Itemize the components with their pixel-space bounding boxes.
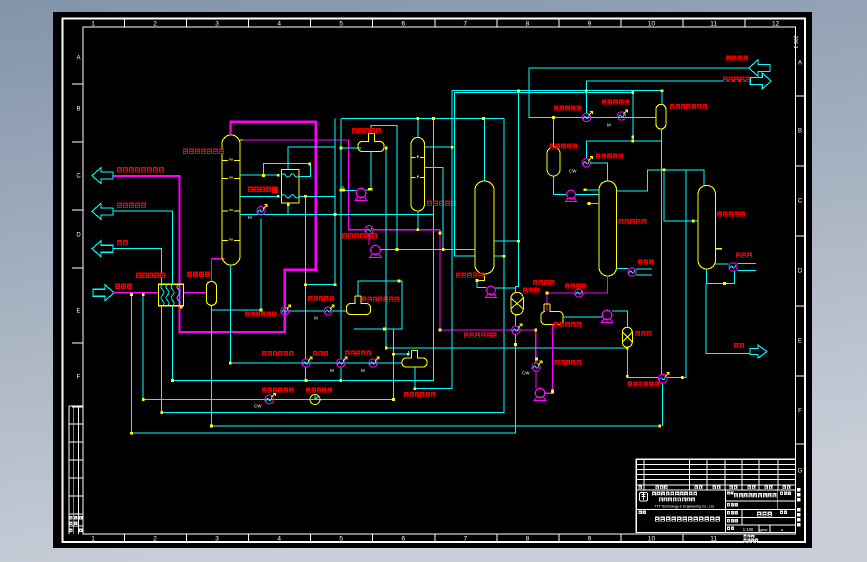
valve VV10 on T1 side-draw line <box>257 207 265 215</box>
wire T1 to E1 lower tube line <box>240 195 278 197</box>
instrument circle YC1 blowdown cooler <box>310 395 320 405</box>
wire T2 top riser <box>417 118 419 137</box>
svg-text:2: 2 <box>153 21 157 28</box>
svg-text:CW: CW <box>254 404 262 409</box>
label H2S浓缩塔 <box>456 273 483 278</box>
output arrow A2 CO2 gas <box>92 203 113 219</box>
revision strip table bottom-left margin <box>69 406 83 534</box>
svg-text:D: D <box>76 233 81 239</box>
svg-text:10: 10 <box>648 536 656 543</box>
wire V1 bottom drain down to valve VV3 and long drop to valve VV8 <box>586 129 661 374</box>
svg-text:A: A <box>798 61 802 67</box>
valve VV5 blowdown cooler with CW <box>265 395 274 404</box>
pump P1 <box>356 188 366 198</box>
ruler ticks top and bottom <box>125 19 746 543</box>
parts list table of title block <box>636 459 795 532</box>
tiny red mark left of E1 <box>272 187 278 193</box>
label 2#泵 at r1 <box>313 351 328 356</box>
wire VV13 to pump P6 (magenta) <box>535 371 537 388</box>
wire T3 overhead to column T4 with side branch <box>617 170 705 221</box>
pump P4 <box>567 190 576 199</box>
round exchanger RE1 reboiler <box>365 226 373 234</box>
vessel V1 H2S gas-liquid separator <box>656 104 666 129</box>
wire E1 bottom coil outlet down to valve VV4 and rail r2 <box>299 196 335 380</box>
label 低压蒸汽 <box>726 56 748 61</box>
main title block bottom-right <box>636 490 795 532</box>
label 1#泵DN150 <box>262 351 293 356</box>
svg-text:M: M <box>248 215 252 220</box>
inner drawing frame <box>83 27 796 534</box>
output arrow A6 H2S recovery gas <box>750 73 771 89</box>
round exchanger RE6 on T3 bottoms <box>575 289 583 297</box>
svg-text:M: M <box>361 368 365 373</box>
label H2S冷凝器 at VV3 <box>596 154 623 159</box>
wire T2 bottoms drop to RE1 outlet line <box>417 211 419 230</box>
margin text under title block <box>744 535 759 543</box>
label H2S气液分离器 <box>670 104 707 109</box>
svg-text:11: 11 <box>710 536 717 543</box>
wire raw gas feed (magenta) through preheater E2 into waste-heat boiler V3 <box>114 259 225 293</box>
wire T1 overhead side stub (yellow) <box>240 139 243 141</box>
label 3#泵DN100 <box>345 351 371 356</box>
label 再沸器 at RE6 <box>565 284 586 289</box>
heat exchanger E2 raw gas preheater <box>159 284 184 306</box>
label 净化气往甲醇合成 <box>117 167 164 172</box>
svg-text:7: 7 <box>464 536 468 543</box>
wire E1 right side loop <box>264 164 311 177</box>
svg-text:8: 8 <box>526 21 530 28</box>
svg-text:1: 1 <box>91 21 95 28</box>
wire drum D1 to pump P1 loop <box>341 151 371 191</box>
wire E1 shell inlet from top header <box>288 118 335 284</box>
svg-text:3: 3 <box>215 536 219 543</box>
valve VV2 H2S precooler <box>617 112 625 120</box>
ruler column numbers 1-12 top and bottom <box>91 21 779 543</box>
svg-text:7: 7 <box>464 21 468 28</box>
svg-text:8: 8 <box>526 536 530 543</box>
wire T1 overhead vapour (magenta) to exchanger RE1 and on to valve VV7 and pump P6 <box>243 140 553 393</box>
wire D2 riser loop <box>354 281 402 329</box>
valve VV1 H2S condenser <box>582 113 590 121</box>
label CO2气体 <box>117 203 146 208</box>
wire T4 bottoms to reboiler return and waste water header <box>706 269 751 353</box>
svg-text:CW: CW <box>522 371 530 376</box>
drum D3 waste water separator no.2 <box>402 350 427 367</box>
wire magenta riser from P6 to tank D4 <box>552 325 554 392</box>
svg-text:12: 12 <box>772 21 780 28</box>
label 排污冷却器 <box>306 388 332 393</box>
valve VV11 regenerator gas heater on magenta riser <box>281 307 289 315</box>
svg-text:5: 5 <box>339 536 343 543</box>
svg-text:F: F <box>77 375 81 381</box>
wire T3 left nozzle stub b <box>589 203 599 205</box>
svg-text:D: D <box>798 269 803 275</box>
svg-text:10: 10 <box>648 21 656 28</box>
wire T5 right stub to header riser <box>494 255 504 257</box>
label 闪蒸分离器 <box>550 144 577 149</box>
svg-text:G: G <box>798 469 803 475</box>
tank D4 methanol intermediate tank <box>541 304 563 325</box>
wire P5 discharge to filter V6 <box>612 311 628 327</box>
wire T3 left nozzle stub a <box>585 189 599 191</box>
outer border frame <box>63 19 806 543</box>
label 甲醇精馏塔 below T3 <box>619 219 647 224</box>
wire T3 bottoms (magenta) through reboiler circuit to tank D4 <box>547 276 608 312</box>
wire H2S recovery gas from valve line to arrow A6 <box>586 81 750 113</box>
wire RE1 to pump P2 (magenta) <box>368 234 370 245</box>
svg-text:1: 1 <box>91 536 95 543</box>
label 预热器E102 <box>136 273 165 278</box>
label 再沸器DN100 <box>342 233 377 238</box>
drum D2 waste water separator no.1 <box>347 296 371 315</box>
svg-text:6: 6 <box>401 21 405 28</box>
label 2#泵DN150 <box>464 333 497 338</box>
label H2S冷凝器 <box>554 106 581 111</box>
wire rail r3 from feed branch to junction x392.9 <box>143 294 393 399</box>
vertical margin glyphs right of title block <box>797 488 800 527</box>
wire VV3 to column T3 top <box>591 163 608 181</box>
svg-text:9: 9 <box>588 536 592 543</box>
label 再生塔气体加热器 <box>245 312 276 317</box>
wire top header left segment with risers <box>341 118 361 380</box>
svg-text:gww: gww <box>759 527 767 532</box>
wire T5 bottom yellow nozzle <box>477 276 485 281</box>
wire T4 right yellow stub <box>716 248 723 250</box>
svg-text:B: B <box>798 129 802 135</box>
wire purified-gas product line (thick magenta) from T1 top to output arrow A1 <box>114 122 316 332</box>
label 固体残渣排出 <box>262 388 293 393</box>
svg-text:C: C <box>76 174 81 180</box>
pump P2 <box>371 245 381 255</box>
label H2S回收气 <box>723 77 750 82</box>
svg-text:Z06-1: Z06-1 <box>792 35 798 48</box>
svg-text:3: 3 <box>215 21 219 28</box>
filter V5 with cross <box>511 292 524 315</box>
valve VV4 on rail r1 <box>302 359 310 367</box>
wire D2 loop drop to rail r3 with branch into D3 neck <box>394 329 409 400</box>
wire V2 bottom to pump P4 and into T3 <box>554 176 600 195</box>
label H2S预冷器 <box>602 100 629 105</box>
wire LP steam header from arrow A5 down x529 through valves to V1 <box>529 68 749 118</box>
wire drum D1 boil-off via jog to long drop x396.9 <box>371 125 397 249</box>
wire CO2 line via preheater E2 and bottom rail r2 <box>114 118 434 380</box>
ruler row letters left and right <box>76 56 803 475</box>
svg-text:5: 5 <box>339 21 343 28</box>
label 气液分离器D1 <box>352 128 381 133</box>
filter V6 with cross <box>622 327 632 347</box>
svg-text:11: 11 <box>710 21 717 28</box>
label 废水 at A7 <box>734 343 744 348</box>
wire V6 bottom to valve VV8 line <box>627 170 686 378</box>
wire branch x518.5 from header down to T5 side draw and filter V5 <box>516 91 519 287</box>
label 精甲醇往精馏 <box>533 280 554 285</box>
column T5 H2S concentration column <box>475 181 494 274</box>
label 再沸器 at RE2 <box>638 260 654 265</box>
output arrow A3 tail gas <box>92 241 113 257</box>
svg-text:2: 2 <box>153 536 157 543</box>
pump P3 <box>487 286 496 295</box>
pump P5 <box>602 310 612 320</box>
wire pump P2 discharge to column T3 <box>381 249 476 251</box>
label 过滤器 at V5 <box>523 288 539 293</box>
svg-text:E: E <box>76 309 80 315</box>
label CO2吸收塔 <box>427 201 456 206</box>
svg-text:B: B <box>76 107 80 113</box>
wire T2 upper side draw <box>424 146 452 148</box>
column T2 CO2 absorber <box>411 137 425 211</box>
wire RE2 nozzle lines <box>617 269 653 275</box>
svg-text:C: C <box>798 199 803 205</box>
output arrow A1 purified gas to methanol synthesis <box>92 168 113 184</box>
valve VV7 on magenta transfer line <box>512 326 520 334</box>
round exchanger RE3 reboiler of T4 <box>729 263 737 271</box>
label 4#泵DN100 <box>555 360 581 365</box>
wire tail-gas line with bottom rail r4 and riser x503.9 <box>114 118 504 412</box>
wire T5 top riser to header <box>484 118 486 181</box>
label 循环气冷却器 <box>248 187 277 192</box>
wire T2 lower side draw down to pump discharge header <box>424 168 443 250</box>
ruler row ticks left and right <box>72 84 806 444</box>
svg-text:E: E <box>798 339 802 345</box>
wire V3 bottom blowdown to rail r5 and up to valve VV8 <box>211 305 662 426</box>
wire RE3 nozzle lines <box>716 264 757 271</box>
heat exchanger E1 interchanger <box>281 169 299 203</box>
svg-text:A: A <box>76 56 80 62</box>
vessel V3 waste heat boiler <box>206 281 216 305</box>
label 1#废水气分离器 <box>362 297 399 302</box>
label 过滤器 at V6 <box>636 331 652 336</box>
label at VV12 <box>308 296 334 301</box>
separator drum D1 <box>358 133 384 151</box>
wire header pair upper run to H2S separator V1 <box>415 91 662 389</box>
label 甲醇中间槽 <box>554 322 581 327</box>
wire T1 to E1 upper tube line <box>240 174 278 176</box>
wire RE10 riser down to V3 blowdown branch <box>211 219 261 310</box>
wire V5 bottom to valve VV7 and rail r6 <box>131 296 515 433</box>
wire D4 to pump P5 suction <box>563 316 602 318</box>
output arrow A7 waste water <box>750 345 767 358</box>
output arrow A5 LP steam <box>749 60 770 76</box>
svg-text:F: F <box>798 409 802 415</box>
wire V2 top riser to steam/valve line <box>553 118 555 148</box>
wire T1 side draw line y214 with valve VV10 <box>240 213 434 215</box>
label 甲醇成品塔 at T4 <box>717 212 745 217</box>
svg-text:9: 9 <box>588 21 592 28</box>
vessel V2 flash separator <box>547 147 560 176</box>
wire T5 bottoms to pump P3 and filter V5 <box>477 281 516 293</box>
input arrow A4 raw synthesis gas <box>93 285 114 301</box>
valve VV3 condenser with CW <box>582 159 590 167</box>
label 污水冷凝器 at VV8 <box>628 382 659 387</box>
label 2#废水气排放 <box>404 392 435 397</box>
valve VV13 cooler above pump P6 <box>532 363 540 371</box>
label 再沸器 at RE3 <box>736 253 752 258</box>
valve VV4b on rail r1 <box>337 359 345 367</box>
wire E1 bottom nozzle drop <box>287 203 289 214</box>
wire VV11 to VV12 to drum D2 <box>289 310 347 312</box>
svg-text:4: 4 <box>277 21 281 28</box>
svg-text:CW: CW <box>569 169 577 174</box>
label 废热锅炉 <box>187 272 210 277</box>
label 合成气甲醇洗塔 <box>183 149 224 154</box>
wire T5 upper right draw joining x518.5 drop <box>494 240 519 242</box>
wire long vertical x386 from C2 loop to V6 drop line <box>386 148 627 348</box>
round exchanger RE2 reboiler of T3 <box>628 268 636 276</box>
column T4 methanol product column <box>698 185 716 269</box>
svg-text:4: 4 <box>277 536 281 543</box>
label 尾气 <box>117 240 128 245</box>
svg-text:6: 6 <box>401 536 405 543</box>
column T3 methanol rectifier <box>599 181 617 276</box>
svg-text:TTT Technology & Engineering C: TTT Technology & Engineering Co., Ltd <box>654 505 713 509</box>
svg-text:M: M <box>314 316 318 321</box>
valve VV8 waste water cooler <box>658 374 667 383</box>
wire header pair lower run to condenser line <box>455 93 633 257</box>
column T1 methanol wash column <box>222 135 240 265</box>
valve VV12 before drum D2 <box>324 307 332 315</box>
svg-text:1:100: 1:100 <box>743 527 754 532</box>
valve VV6 pump no.3 with M <box>369 359 377 367</box>
wire T1 bottoms to rail r1 feeding separator drum D3 <box>230 265 402 363</box>
svg-text:M: M <box>607 123 611 128</box>
pump P6 reflux pump <box>535 388 545 398</box>
label 原料气 <box>115 284 132 289</box>
svg-text:M: M <box>330 368 334 373</box>
